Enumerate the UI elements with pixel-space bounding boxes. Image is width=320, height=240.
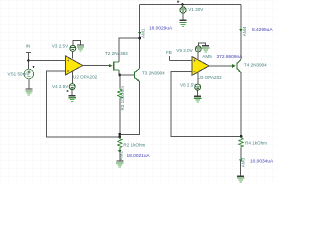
ground under VS1 (25, 89, 32, 95)
svg-text:T3 2N3904: T3 2N3904 (142, 70, 165, 75)
svg-text:V9 2.0V: V9 2.0V (176, 48, 193, 53)
op-amp U1 = U2 OPA202 (66, 56, 98, 80)
resistor R3 10kOhm (118, 86, 126, 111)
wire IN to VS1 (28, 52, 30, 69)
svg-text:T4 2N3904: T4 2N3904 (244, 62, 267, 67)
resistor R2 1kOhm (118, 137, 146, 149)
ground under V1 (179, 20, 186, 26)
ammeter AM4 (239, 26, 247, 36)
wire VS1 to ground (28, 79, 30, 89)
ground under AM3 (237, 176, 244, 182)
svg-text:U2 OPA202: U2 OPA202 (73, 75, 98, 80)
ammeter AM1 (138, 28, 146, 38)
junction T2 drain / AM1 (138, 37, 141, 40)
wire U2 output to T2 gate (83, 65, 111, 67)
svg-text:8.4295uA: 8.4295uA (252, 27, 273, 33)
svg-text:IN: IN (26, 44, 31, 49)
wire +input U2 (29, 60, 66, 62)
wire -input U3 feedback left edge (171, 72, 241, 137)
wire -input U2 feedback left edge (47, 71, 120, 137)
junction T3 emitter / R3 bottom (118, 133, 121, 136)
node IN (26, 44, 32, 53)
ground near V9 (202, 46, 209, 52)
junction T2 source / T3 base / R3 (118, 74, 121, 77)
ammeter AM2 (118, 148, 123, 161)
svg-text:VS1 50mV: VS1 50mV (8, 72, 31, 77)
junction at IN/+in branch (27, 59, 30, 62)
svg-text:18.0029uA: 18.0029uA (149, 25, 173, 31)
op-amp U3 OPA202 (192, 57, 222, 81)
wire R4 to AM3 (240, 148, 242, 161)
svg-text:10.0034uA: 10.0034uA (250, 159, 274, 165)
svg-text:V1 20V: V1 20V (188, 7, 204, 12)
wire R3 to bottom node (119, 99, 121, 134)
svg-text:AM1: AM1 (141, 28, 146, 38)
wire T4 emitter down (240, 72, 242, 136)
svg-text:18.0021uA: 18.0021uA (127, 153, 151, 159)
svg-text:AM3: AM3 (241, 157, 246, 167)
svg-text:V4 2.5V: V4 2.5V (52, 84, 69, 89)
svg-text:R3 10kOhm: R3 10kOhm (120, 86, 125, 111)
voltage source VS1 50mV (8, 66, 35, 79)
wire T4 collector up (240, 5, 242, 60)
junction feedback tap (118, 136, 121, 139)
node FB (166, 50, 172, 60)
wire junction to R3 (119, 75, 121, 88)
wire T2 source down (118, 70, 120, 75)
supply V4 2.5V (52, 71, 75, 92)
svg-text:R4 1kOhm: R4 1kOhm (245, 140, 267, 145)
svg-text:T2 2N4393: T2 2N4393 (105, 51, 128, 56)
wire AM1 vertical (139, 5, 141, 69)
supply V3 2.5V (52, 40, 81, 58)
ammeter AM5 (202, 54, 235, 68)
svg-text:U3 OPA202: U3 OPA202 (198, 75, 223, 80)
svg-text:V3 2.5V: V3 2.5V (52, 43, 69, 48)
svg-text:FB: FB (166, 50, 172, 55)
ammeter AM3 (239, 157, 246, 167)
wire T3 base (120, 74, 134, 76)
transistor T4 2N3904 (237, 60, 267, 73)
wire V1 to ground (182, 13, 184, 20)
ground under V8 (194, 96, 201, 102)
wire T2 drain up and right to AM1 line (119, 38, 140, 62)
ground near V3 (77, 45, 84, 51)
ground under AM2 (116, 161, 123, 167)
wire AM2 to ground (119, 152, 121, 161)
svg-text:V8 2.5V: V8 2.5V (180, 82, 197, 87)
svg-text:AM5: AM5 (202, 54, 212, 59)
resistor R4 1kOhm (239, 137, 267, 148)
ground under V4 (69, 96, 76, 102)
wire AM3 to ground (240, 161, 242, 176)
svg-text:372.8609nA: 372.8609nA (217, 54, 244, 60)
supply V8 2.5V (180, 72, 201, 90)
supply V1 20V (177, 1, 204, 13)
transistor T3 2N3904 (135, 69, 166, 82)
wire +input U3 (170, 60, 193, 62)
svg-text:R2 1kOhm: R2 1kOhm (123, 142, 145, 147)
svg-text:AM4: AM4 (242, 26, 247, 36)
wire V8 to ground (197, 90, 199, 96)
junction V1 tap (181, 3, 184, 6)
wire V4 to ground (71, 90, 73, 96)
wire T3 emitter down (120, 81, 140, 134)
wire T3 collector up (139, 38, 141, 69)
wire top rail (140, 4, 242, 6)
supply V9 2.0V (176, 43, 205, 59)
transistor T2 2N4393 (JFET) (105, 51, 128, 70)
junction R4 top (240, 135, 243, 138)
